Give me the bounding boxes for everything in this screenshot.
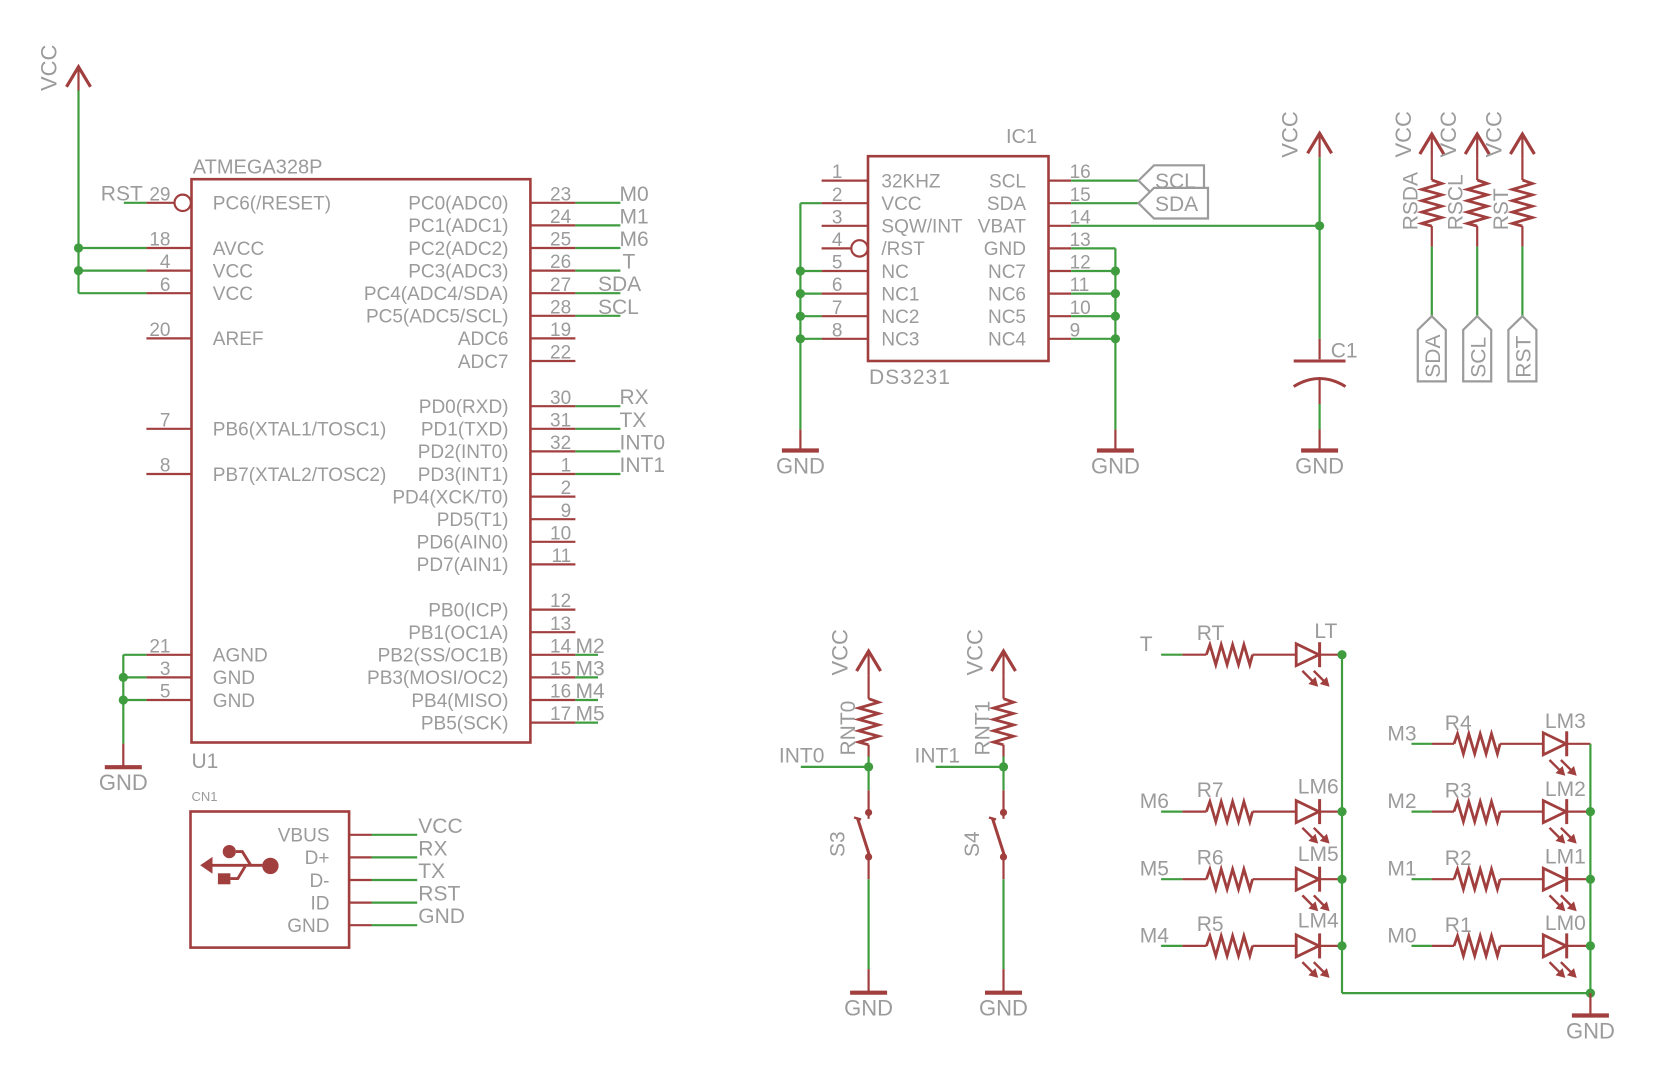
resistor R2 xyxy=(1432,847,1543,889)
svg-text:5: 5 xyxy=(832,253,843,274)
junction on VCC net at pin-4 row xyxy=(74,266,83,275)
wire net SCL at U1 pin 28 xyxy=(575,296,638,319)
svg-text:VBUS: VBUS xyxy=(278,826,330,847)
svg-text:PC4(ADC4/SDA): PC4(ADC4/SDA) xyxy=(364,284,509,305)
svg-text:GND: GND xyxy=(844,996,893,1021)
LED LM3 xyxy=(1543,710,1590,776)
svg-text:VCC: VCC xyxy=(213,261,253,282)
U1 pin 29 inverted reset bubble xyxy=(175,195,191,211)
svg-text:INT1: INT1 xyxy=(620,454,666,477)
svg-text:VCC: VCC xyxy=(36,44,61,91)
wire net RX at U1 pin 30 xyxy=(575,386,648,409)
svg-text:VCC: VCC xyxy=(1277,111,1302,158)
junction INT1 node xyxy=(999,762,1008,771)
wire VCC vertical to U1 power pins xyxy=(79,90,147,293)
U1 right pin stubs xyxy=(530,203,575,723)
ground symbol below LED matrix xyxy=(1566,993,1615,1043)
svg-text:NC1: NC1 xyxy=(881,284,919,305)
svg-text:GND: GND xyxy=(287,916,329,937)
svg-text:SQW/INT: SQW/INT xyxy=(881,217,963,238)
svg-text:RST: RST xyxy=(101,182,143,205)
junction GND net row 3 xyxy=(119,673,128,682)
svg-text:17: 17 xyxy=(550,704,571,725)
resistor RNT1 xyxy=(972,675,1014,756)
svg-text:TX: TX xyxy=(620,409,647,432)
wire net M5 xyxy=(1140,858,1183,881)
wire net M2 at U1 pin 14 xyxy=(575,635,604,658)
svg-text:SDA: SDA xyxy=(598,273,641,296)
wire switch S3 to ground xyxy=(867,879,869,969)
svg-text:30: 30 xyxy=(550,388,571,409)
wire IC1 pin 11 to GND chain xyxy=(1071,293,1115,295)
wire net T xyxy=(1140,633,1183,656)
ground symbol below S3 xyxy=(844,969,893,1021)
svg-text:R4: R4 xyxy=(1445,712,1472,735)
resistor RSDA xyxy=(1399,158,1442,247)
svg-text:PB5(SCK): PB5(SCK) xyxy=(421,713,509,734)
junction LM6 cathode xyxy=(1337,807,1346,816)
svg-text:GND: GND xyxy=(213,668,255,689)
svg-text:15: 15 xyxy=(550,659,571,680)
junction LM1 cathode xyxy=(1586,875,1595,884)
svg-text:3: 3 xyxy=(832,207,843,228)
svg-text:GND: GND xyxy=(979,996,1028,1021)
svg-text:21: 21 xyxy=(149,636,170,657)
svg-text:R5: R5 xyxy=(1197,913,1224,936)
wire net VCC from VBAT pin 14 xyxy=(1071,225,1320,227)
svg-text:R1: R1 xyxy=(1445,914,1472,937)
wire short below RNT0 xyxy=(867,757,869,767)
wire net GND at CN1 xyxy=(372,905,465,928)
svg-text:AGND: AGND xyxy=(213,646,268,667)
svg-text:28: 28 xyxy=(550,297,571,318)
svg-text:4: 4 xyxy=(832,230,843,251)
svg-text:SCL: SCL xyxy=(598,296,639,319)
svg-text:LM3: LM3 xyxy=(1545,710,1586,733)
svg-text:SDA: SDA xyxy=(1422,335,1445,378)
wire net M3 at U1 pin 15 xyxy=(575,657,604,680)
svg-text:20: 20 xyxy=(149,320,170,341)
wire GND net left of IC1 xyxy=(800,203,821,429)
resistor RNT0 xyxy=(837,675,879,756)
svg-text:RST: RST xyxy=(1513,336,1536,378)
svg-text:8: 8 xyxy=(160,456,171,477)
power VCC symbol above RSCL xyxy=(1436,111,1489,158)
IC1 right pin stubs xyxy=(1049,181,1072,339)
svg-text:RST: RST xyxy=(1490,188,1513,230)
svg-text:RT: RT xyxy=(1197,622,1225,645)
svg-text:23: 23 xyxy=(550,184,571,205)
svg-text:T: T xyxy=(1140,633,1153,656)
svg-text:24: 24 xyxy=(550,207,572,228)
svg-text:7: 7 xyxy=(160,410,171,431)
svg-text:PD2(INT0): PD2(INT0) xyxy=(418,442,509,463)
wire net M4 at U1 pin 16 xyxy=(575,680,605,703)
power VCC symbol above RNT1 xyxy=(963,629,1016,676)
U1 right pin numbers xyxy=(550,184,572,725)
svg-text:PB2(SS/OC1B): PB2(SS/OC1B) xyxy=(378,646,509,667)
IC1 left pin stubs xyxy=(822,181,868,339)
junction LT cathode to bus xyxy=(1337,650,1346,659)
svg-text:R2: R2 xyxy=(1445,847,1472,870)
wire net SCL to flag xyxy=(1071,180,1138,182)
svg-text:29: 29 xyxy=(149,184,170,205)
svg-text:GND: GND xyxy=(418,905,465,928)
junction IC1 pin 6 xyxy=(796,289,805,298)
svg-text:ATMEGA328P: ATMEGA328P xyxy=(193,156,323,178)
LED LM2 xyxy=(1543,778,1590,844)
junction IC1 pin 8 xyxy=(796,334,805,343)
svg-text:U1: U1 xyxy=(192,750,219,773)
svg-text:PC6(/RESET): PC6(/RESET) xyxy=(213,194,331,215)
resistor RST xyxy=(1490,158,1533,247)
wire INT1 down to switch xyxy=(1002,767,1004,790)
svg-text:26: 26 xyxy=(550,252,571,273)
ground symbol below U1 xyxy=(99,744,148,796)
capacitor C1 xyxy=(1294,339,1358,404)
svg-text:D+: D+ xyxy=(305,848,330,869)
junction LM0 cathode xyxy=(1586,941,1595,950)
svg-text:10: 10 xyxy=(550,523,571,544)
svg-text:M0: M0 xyxy=(620,183,649,206)
wire GND net from U1 AGND pin 21 xyxy=(123,655,146,744)
svg-text:/RST: /RST xyxy=(881,239,925,260)
svg-text:SCL: SCL xyxy=(1467,337,1490,378)
svg-text:GND: GND xyxy=(1295,454,1344,479)
svg-text:LM1: LM1 xyxy=(1545,846,1586,869)
svg-text:M6: M6 xyxy=(1140,790,1169,813)
wire IC1 pin 5 to GND chain xyxy=(800,270,821,272)
wire net SDA to flag xyxy=(1071,202,1138,204)
wire GND branch pin 5 xyxy=(123,699,146,701)
power VCC symbol above C1 xyxy=(1277,111,1331,158)
svg-text:RX: RX xyxy=(620,386,649,409)
junction IC1 pin 10 xyxy=(1111,312,1120,321)
wire net INT1 xyxy=(915,744,1004,767)
CN1 pin stubs xyxy=(349,835,371,925)
wire net SDA at U1 pin 27 xyxy=(575,273,641,296)
wire net RST to U1 pin 29 xyxy=(101,182,147,205)
svg-text:PD4(XCK/T0): PD4(XCK/T0) xyxy=(392,487,508,508)
net flag SDA xyxy=(1139,188,1209,219)
junction IC1 pin 11 xyxy=(1111,289,1120,298)
wire LED cathode bus right column xyxy=(1589,744,1591,993)
svg-text:IC1: IC1 xyxy=(1006,126,1037,148)
svg-text:M4: M4 xyxy=(1140,924,1169,947)
svg-text:NC: NC xyxy=(881,262,908,283)
power VCC symbol above RSDA xyxy=(1391,111,1444,158)
svg-text:ADC7: ADC7 xyxy=(458,352,509,373)
svg-text:PD0(RXD): PD0(RXD) xyxy=(419,397,509,418)
wire IC1 pin 7 to GND chain xyxy=(800,315,821,317)
svg-text:RNT1: RNT1 xyxy=(972,701,995,756)
wire net TX at U1 pin 31 xyxy=(575,409,646,432)
wire net INT1 at U1 pin 1 xyxy=(575,454,665,477)
svg-text:PD6(AIN0): PD6(AIN0) xyxy=(417,533,509,554)
svg-text:M1: M1 xyxy=(1387,858,1416,881)
svg-text:7: 7 xyxy=(832,298,843,319)
USB icon inside CN1 xyxy=(200,845,278,884)
wire net RST at CN1 xyxy=(372,883,461,906)
svg-text:M5: M5 xyxy=(576,703,605,726)
resistor R1 xyxy=(1432,914,1543,956)
svg-text:VCC: VCC xyxy=(1436,111,1461,158)
wire net M0 at U1 pin 23 xyxy=(575,183,648,206)
svg-text:GND: GND xyxy=(984,239,1026,260)
svg-text:NC5: NC5 xyxy=(988,307,1026,328)
junction LM4 cathode xyxy=(1337,941,1346,950)
svg-text:CN1: CN1 xyxy=(192,789,218,804)
svg-text:14: 14 xyxy=(550,636,572,657)
svg-text:9: 9 xyxy=(561,501,572,522)
wire net M6 xyxy=(1140,790,1183,813)
wire IC1 pin 8 to GND chain xyxy=(800,338,821,340)
connector CN1 body xyxy=(191,789,350,947)
svg-text:TX: TX xyxy=(418,860,445,883)
svg-text:T: T xyxy=(623,251,636,274)
svg-text:GND: GND xyxy=(99,770,148,795)
LED LM5 xyxy=(1296,843,1342,911)
svg-text:PB1(OC1A): PB1(OC1A) xyxy=(408,623,508,644)
svg-text:RSCL: RSCL xyxy=(1445,174,1468,230)
junction GND net row 5 xyxy=(119,695,128,704)
svg-text:R6: R6 xyxy=(1197,847,1224,870)
svg-text:PC1(ADC1): PC1(ADC1) xyxy=(408,216,508,237)
svg-text:M4: M4 xyxy=(576,680,605,703)
LED LM4 xyxy=(1296,910,1342,978)
LED LM0 xyxy=(1543,912,1590,978)
svg-text:M1: M1 xyxy=(620,205,649,228)
wire VCC branch to AVCC pin 18 xyxy=(79,247,147,249)
svg-text:RSDA: RSDA xyxy=(1399,172,1422,230)
svg-text:PB3(MOSI/OC2): PB3(MOSI/OC2) xyxy=(367,668,508,689)
svg-text:PC2(ADC2): PC2(ADC2) xyxy=(408,239,508,260)
power VCC symbol above RNT0 xyxy=(828,629,881,676)
svg-text:LM5: LM5 xyxy=(1298,843,1339,866)
wire net M0 xyxy=(1387,924,1432,947)
svg-text:M6: M6 xyxy=(620,228,649,251)
svg-text:32: 32 xyxy=(550,433,571,454)
resistor R4 xyxy=(1432,712,1543,754)
svg-text:LM6: LM6 xyxy=(1298,775,1339,798)
svg-text:8: 8 xyxy=(832,320,843,341)
svg-text:M3: M3 xyxy=(576,657,605,680)
svg-text:RX: RX xyxy=(418,837,447,860)
svg-text:PB0(ICP): PB0(ICP) xyxy=(428,600,508,621)
wire net M6 at U1 pin 25 xyxy=(575,228,648,251)
svg-text:1: 1 xyxy=(561,456,572,477)
svg-text:PC0(ADC0): PC0(ADC0) xyxy=(408,194,508,215)
switch S3 xyxy=(826,790,872,879)
junction IC1 pin 12 xyxy=(1111,266,1120,275)
net flag SDA xyxy=(1418,316,1446,381)
svg-text:22: 22 xyxy=(550,343,571,364)
wire IC1 pin 10 to GND chain xyxy=(1071,315,1115,317)
svg-text:6: 6 xyxy=(832,275,843,296)
svg-text:2: 2 xyxy=(832,185,843,206)
svg-text:DS3231: DS3231 xyxy=(869,366,951,389)
svg-text:SDA: SDA xyxy=(987,194,1026,215)
junction IC1 pin 9 xyxy=(1111,334,1120,343)
ground symbol below C1 xyxy=(1295,430,1344,479)
junction on VCC net at AVCC row xyxy=(74,243,83,252)
power VCC symbol above RST xyxy=(1481,111,1534,158)
svg-text:PC5(ADC5/SCL): PC5(ADC5/SCL) xyxy=(366,307,509,328)
svg-text:GND: GND xyxy=(776,454,825,479)
svg-text:19: 19 xyxy=(550,320,571,341)
svg-text:M5: M5 xyxy=(1140,858,1169,881)
svg-text:VCC: VCC xyxy=(963,629,988,676)
svg-text:D-: D- xyxy=(309,871,329,892)
svg-text:PB4(MISO): PB4(MISO) xyxy=(411,691,508,712)
wire net RST below RST xyxy=(1521,247,1523,317)
wire IC1 pin 9 to GND chain xyxy=(1071,338,1115,340)
wire GND net right of IC1 from pin 13 xyxy=(1071,248,1115,429)
svg-text:PD3(INT1): PD3(INT1) xyxy=(418,465,509,486)
wire net TX at CN1 xyxy=(372,860,446,883)
net flag SCL xyxy=(1463,316,1491,381)
resistor RSCL xyxy=(1445,158,1488,247)
wire short below RNT1 xyxy=(1002,757,1004,767)
ground symbol below S4 xyxy=(979,969,1028,1021)
svg-text:LM4: LM4 xyxy=(1298,910,1339,933)
svg-text:VBAT: VBAT xyxy=(978,217,1027,238)
wire GND branch pin 3 xyxy=(123,676,146,678)
svg-text:M2: M2 xyxy=(576,635,605,658)
svg-text:VCC: VCC xyxy=(1391,111,1416,158)
wire INT0 down to switch xyxy=(867,767,869,790)
svg-text:2: 2 xyxy=(561,478,572,499)
svg-text:S4: S4 xyxy=(961,831,984,857)
junction VBAT wire joins VCC net xyxy=(1315,221,1324,230)
svg-text:C1: C1 xyxy=(1331,339,1358,362)
svg-text:VCC: VCC xyxy=(418,815,462,838)
LED LM1 xyxy=(1543,846,1590,912)
switch S4 xyxy=(961,790,1007,879)
wire net M1 at U1 pin 24 xyxy=(575,205,648,228)
LED LT xyxy=(1296,620,1342,687)
svg-text:4: 4 xyxy=(160,252,171,273)
svg-text:GND: GND xyxy=(213,691,255,712)
svg-text:R7: R7 xyxy=(1197,779,1224,802)
junction LM5 cathode xyxy=(1337,875,1346,884)
svg-text:INT0: INT0 xyxy=(779,744,825,767)
wire net M1 xyxy=(1387,858,1432,881)
svg-text:PD7(AIN1): PD7(AIN1) xyxy=(417,555,509,576)
IC IC1 DS3231 body xyxy=(868,126,1049,389)
svg-text:27: 27 xyxy=(550,275,571,296)
svg-text:M2: M2 xyxy=(1387,790,1416,813)
svg-text:RST: RST xyxy=(418,883,460,906)
svg-text:SCL: SCL xyxy=(989,171,1026,192)
svg-text:PD5(T1): PD5(T1) xyxy=(437,510,509,531)
svg-text:ID: ID xyxy=(311,893,330,914)
IC1 right pin numbers xyxy=(1070,162,1092,341)
wire net M4 xyxy=(1140,924,1183,947)
U1 left pin stubs xyxy=(146,203,191,700)
svg-text:NC7: NC7 xyxy=(988,262,1026,283)
svg-text:ADC6: ADC6 xyxy=(458,329,509,350)
svg-text:RNT0: RNT0 xyxy=(837,701,860,756)
svg-text:S3: S3 xyxy=(826,831,849,857)
wire net SDA below RSDA xyxy=(1431,247,1433,317)
resistor RT xyxy=(1182,622,1296,665)
wire net M2 xyxy=(1387,790,1432,813)
junction IC1 pin 7 xyxy=(796,312,805,321)
resistor R3 xyxy=(1432,780,1543,822)
wire IC1 pin 6 to GND chain xyxy=(800,293,821,295)
ground symbol right of IC1 xyxy=(1091,430,1140,479)
wire net VCC at CN1 xyxy=(372,815,463,838)
svg-text:3: 3 xyxy=(160,659,171,680)
resistor R6 xyxy=(1182,847,1296,890)
resistor R5 xyxy=(1182,913,1296,956)
svg-text:18: 18 xyxy=(149,230,170,251)
wire net INT0 at U1 pin 32 xyxy=(575,431,665,454)
svg-text:AREF: AREF xyxy=(213,329,264,350)
wire C1 to ground xyxy=(1318,404,1320,430)
svg-text:VCC: VCC xyxy=(213,284,253,305)
wire bottom bus to ground xyxy=(1342,992,1590,994)
svg-text:LT: LT xyxy=(1314,620,1337,643)
svg-text:VCC: VCC xyxy=(881,194,921,215)
net flag SCL xyxy=(1139,165,1205,196)
wire IC1 pin 12 to GND chain xyxy=(1071,270,1115,272)
power VCC symbol top-left xyxy=(36,44,90,91)
wire net T at U1 pin 26 xyxy=(575,251,635,274)
IC U1 ATMEGA328P body xyxy=(192,156,531,773)
resistor R7 xyxy=(1182,779,1296,822)
svg-text:13: 13 xyxy=(550,614,571,635)
svg-text:AVCC: AVCC xyxy=(213,239,264,260)
wire switch S4 to ground xyxy=(1002,879,1004,969)
svg-text:5: 5 xyxy=(160,682,171,703)
svg-text:PB6(XTAL1/TOSC1): PB6(XTAL1/TOSC1) xyxy=(213,420,387,441)
svg-text:LM0: LM0 xyxy=(1545,912,1586,935)
svg-text:31: 31 xyxy=(550,410,571,431)
U1 left pin numbers xyxy=(149,184,171,702)
svg-text:PB7(XTAL2/TOSC2): PB7(XTAL2/TOSC2) xyxy=(213,465,387,486)
svg-text:M0: M0 xyxy=(1387,924,1416,947)
ground symbol left of IC1 xyxy=(776,430,825,479)
net flag RST xyxy=(1508,316,1536,381)
svg-text:NC4: NC4 xyxy=(988,330,1026,351)
junction ground node xyxy=(1586,989,1595,998)
svg-text:VCC: VCC xyxy=(828,629,853,676)
junction INT0 node xyxy=(864,762,873,771)
wire VCC branch to VCC pin 4 xyxy=(79,270,147,272)
wire net M5 at U1 pin 17 xyxy=(575,703,604,726)
IC1 pin 4 inverted bubble xyxy=(851,240,867,256)
svg-text:GND: GND xyxy=(1091,454,1140,479)
wire VCC net down to C1 xyxy=(1318,157,1320,339)
wire LED cathode bus left column xyxy=(1341,655,1343,993)
IC1 left pin numbers xyxy=(832,162,843,341)
svg-text:1: 1 xyxy=(832,162,843,183)
svg-text:NC6: NC6 xyxy=(988,284,1026,305)
svg-text:PD1(TXD): PD1(TXD) xyxy=(421,420,509,441)
svg-text:6: 6 xyxy=(160,275,171,296)
svg-text:NC2: NC2 xyxy=(881,307,919,328)
svg-text:32KHZ: 32KHZ xyxy=(881,171,941,192)
wire net RX at CN1 xyxy=(372,837,448,860)
wire net M3 xyxy=(1387,722,1432,745)
svg-text:PC3(ADC3): PC3(ADC3) xyxy=(408,261,508,282)
svg-text:12: 12 xyxy=(550,591,571,612)
junction LM2 cathode xyxy=(1586,807,1595,816)
svg-text:M3: M3 xyxy=(1387,722,1416,745)
svg-text:VCC: VCC xyxy=(1481,111,1506,158)
